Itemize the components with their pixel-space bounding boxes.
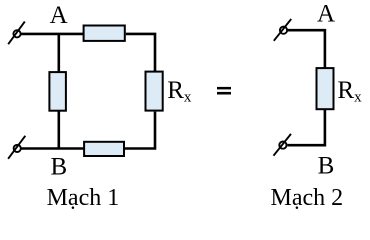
wire from Rx down and left to terminal B (circuit 2) [287,109,325,145]
resistor left (vertical box, circuit 1) [49,72,66,111]
svg-text:A: A [50,2,68,29]
wire left resistor down to bottom wire [57,111,60,149]
svg-text:Mạch 1: Mạch 1 [47,185,120,211]
svg-text:Rx: Rx [337,77,362,106]
resistor Rx (circuit 1) [146,72,163,111]
svg-text:B: B [318,152,335,179]
svg-text:Mạch 2: Mạch 2 [271,185,344,211]
svg-text:B: B [50,154,67,181]
wire from terminal A to top resistor [21,33,84,36]
svg-text:A: A [317,1,335,28]
svg-text:Rx: Rx [167,77,192,106]
resistor Rx (circuit 2) [317,68,334,109]
wire from Rx down and left to bottom resistor [125,112,155,149]
wire junction A down to left resistor [57,34,60,72]
wire from top resistor to right corner and down to Rx [126,34,155,72]
terminal B (circuit 2, open terminal symbol) [274,134,292,156]
equals sign [217,87,231,95]
resistor bottom (horizontal box, circuit 1) [84,142,124,156]
wire from bottom resistor to terminal B [21,147,84,150]
terminal A (circuit 2, open terminal symbol) [274,19,291,41]
wire from terminal A to corner and down to Rx (circuit 2) [287,30,325,68]
terminal B (circuit 1, open terminal symbol) [8,136,25,159]
terminal A (circuit 1, open terminal symbol) [8,22,25,45]
resistor top (horizontal box, circuit 1) [84,26,125,41]
